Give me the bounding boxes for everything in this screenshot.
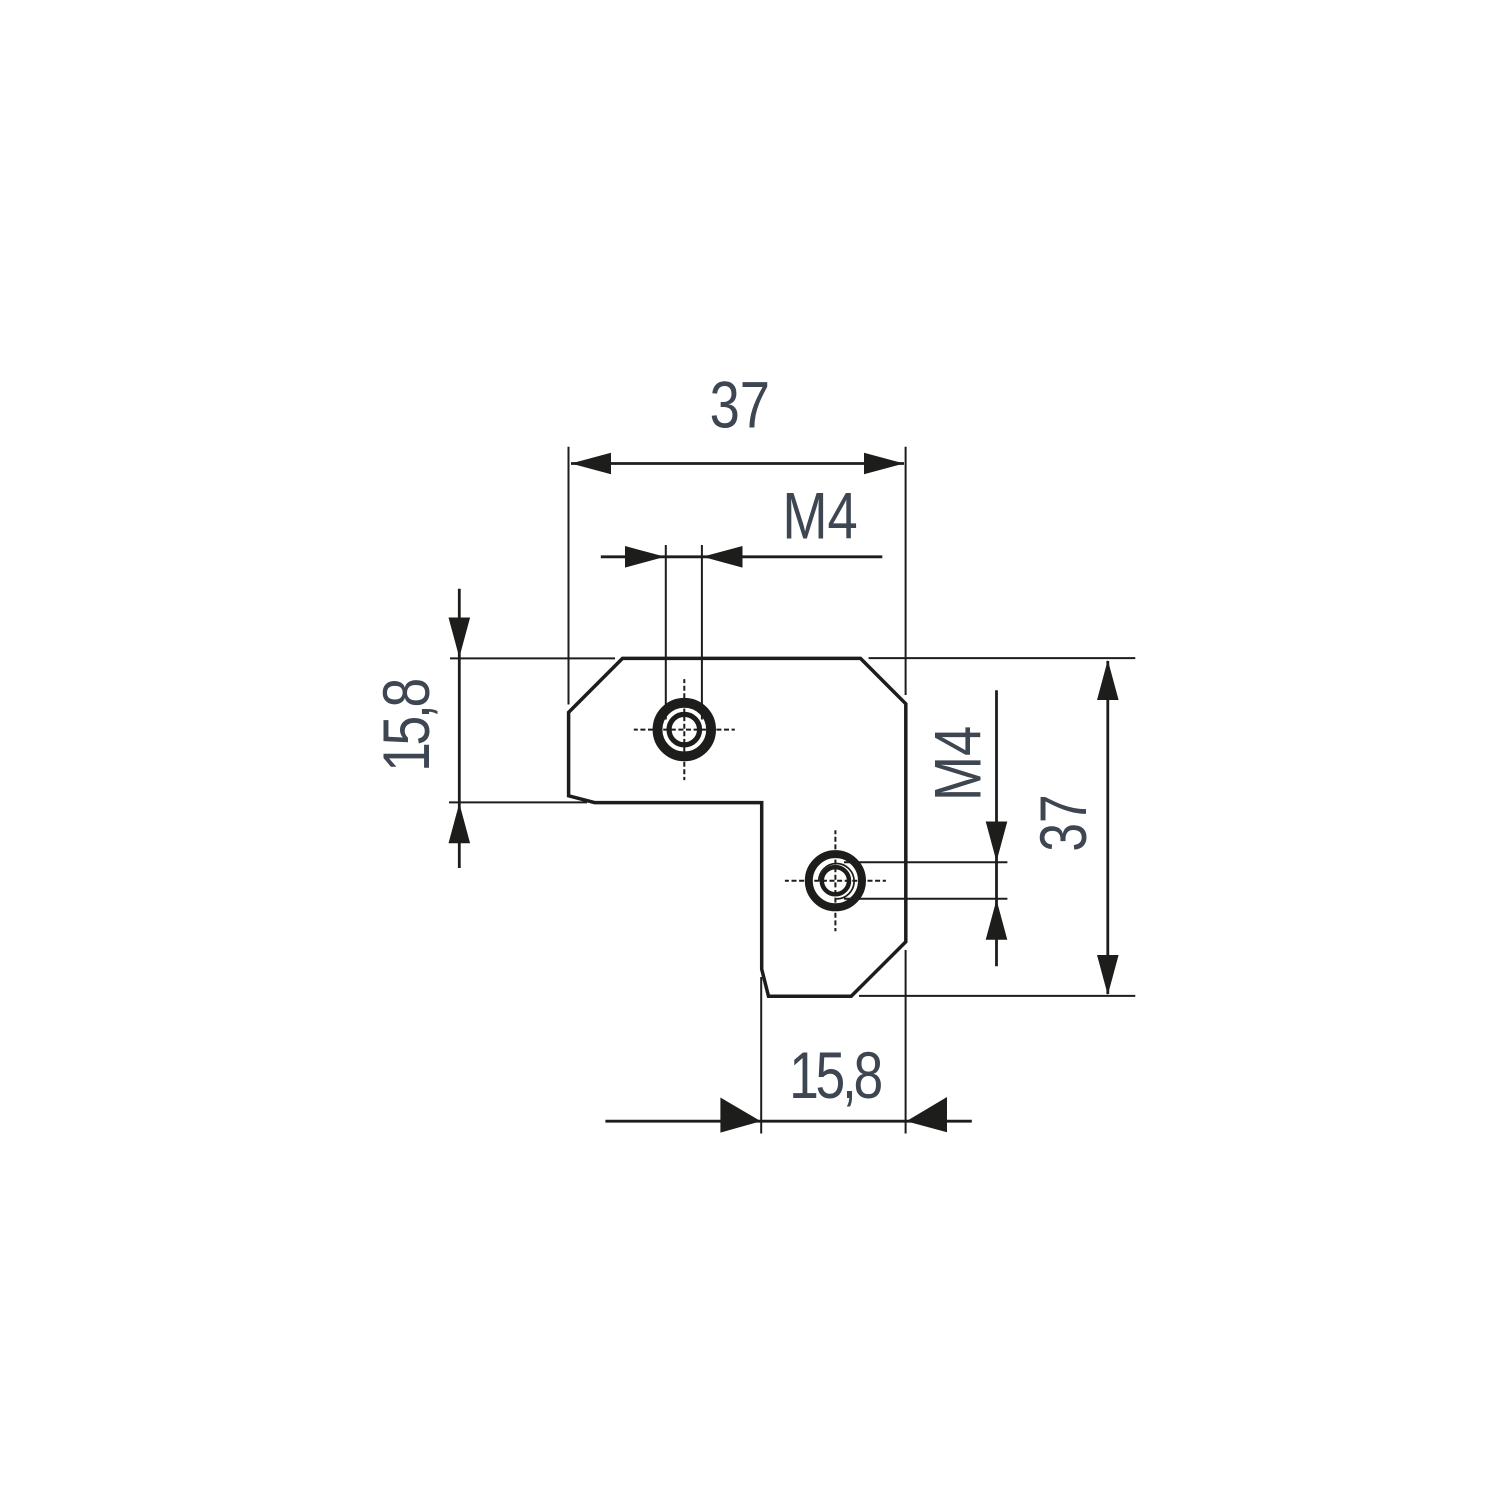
dimension M4 top: arrowhead right (pointing left) — [703, 546, 743, 568]
dimension M4 right: extension line bottom — [844, 898, 1007, 900]
dimension M4 top: extension line left — [665, 545, 667, 720]
dimension 37 top: arrowhead left — [571, 453, 611, 475]
dimension 37 top: dimension line — [571, 462, 904, 465]
dimension 37 right: dimension line — [1106, 661, 1109, 994]
dimension 37 top: arrowhead right — [864, 453, 904, 475]
dimension 15,8 bottom: arrowhead right (pointing left) — [906, 1097, 947, 1132]
hole H1 outer ring — [658, 703, 712, 757]
dimension 37 top: extension line right — [905, 447, 907, 695]
dimension 37 right: extension line bottom — [859, 995, 1135, 997]
hole H2 outer ring — [809, 854, 862, 907]
dimension 15,8 bottom: extension line right — [905, 950, 907, 1134]
dimension 15,8 left: extension line bottom — [449, 801, 587, 803]
dimension M4 top: extension line right — [701, 545, 703, 720]
hole H2 centerline vertical — [834, 830, 836, 931]
part outline (L-shaped corner bracket) — [569, 658, 906, 996]
dimension M4 top: dimension line — [601, 555, 883, 558]
svg-text:15,8: 15,8 — [789, 1039, 881, 1113]
hole H2 centerline horizontal — [785, 880, 886, 882]
hole H1 centerline vertical — [683, 679, 685, 780]
svg-text:M4: M4 — [920, 726, 994, 801]
hole H1 centerline horizontal — [634, 729, 735, 731]
dimension 37 right: arrowhead bottom (pointing down) — [1097, 955, 1119, 995]
dimension 15,8 left: arrowhead top (pointing down) — [449, 618, 471, 658]
dimension 15,8 left: dimension line — [458, 589, 461, 868]
dimension M4 top: arrowhead left (pointing right) — [625, 546, 665, 568]
dimension 15,8 bottom: arrowhead left (pointing right) — [720, 1098, 760, 1133]
dimension 15,8 left: arrowhead bottom (pointing up) — [449, 803, 471, 843]
dimension M4 right: arrowhead upper (pointing down) — [986, 822, 1008, 862]
svg-text:M4: M4 — [782, 479, 857, 553]
hole H1 inner circle — [669, 714, 700, 745]
dimension M4 right: extension line top — [844, 861, 1007, 863]
dimension 37 right: extension line top — [869, 657, 1136, 659]
svg-text:37: 37 — [1026, 794, 1101, 851]
dimension 37 right: arrowhead top (pointing up) — [1097, 660, 1119, 700]
dimension 37 top: extension line left — [568, 447, 570, 705]
dimension 15,8 left: extension line top — [450, 657, 615, 659]
hole H2 inner circle — [822, 867, 849, 894]
svg-text:15,8: 15,8 — [370, 680, 444, 772]
svg-text:37: 37 — [710, 367, 770, 441]
hole H2 thread arc — [819, 864, 854, 899]
dimension M4 right: arrowhead lower (pointing up) — [986, 900, 1008, 940]
dimension 15,8 bottom: dimension line — [605, 1120, 971, 1123]
dimension M4 right: dimension line — [995, 690, 998, 966]
dimension 15,8 bottom: extension line left — [760, 977, 762, 1134]
